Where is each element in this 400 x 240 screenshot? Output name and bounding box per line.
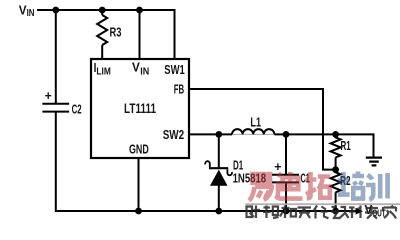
watermark underline [245, 203, 400, 205]
node SW2 / D1 junction [215, 131, 222, 138]
wire D1 branch upper [218, 134, 220, 167]
watermark slogan char 5 (xian) [314, 206, 329, 219]
wire SW2 output line left of L1 [190, 133, 233, 135]
wire VIN pin vertical [139, 10, 141, 59]
svg-text:GND: GND [129, 142, 149, 157]
svg-text:SW1: SW1 [164, 62, 184, 77]
label pin ILIM [94, 60, 111, 77]
capacitor C2 [42, 104, 69, 112]
resistor R2 [331, 170, 341, 193]
resistor R1 [331, 134, 341, 157]
svg-text:IN: IN [27, 8, 35, 19]
watermark slogan char 2 (pin) [263, 206, 279, 219]
inductor L1 [232, 129, 274, 134]
watermark slogan char 6 (she2) [331, 207, 349, 219]
svg-text:LT1111: LT1111 [124, 100, 156, 116]
label pin VIN [132, 60, 149, 78]
wire FB net to divider junction [190, 89, 335, 170]
label VOUT [365, 202, 386, 220]
svg-text:LIM: LIM [96, 65, 111, 77]
svg-text:V: V [132, 60, 140, 75]
node R1/R2 feedback junction [332, 166, 339, 173]
node bottom rail / C1 junction [283, 208, 290, 215]
node VIN rail / VIN pin junction [136, 7, 143, 14]
svg-text:R3: R3 [110, 24, 122, 39]
svg-text:IN: IN [140, 65, 149, 77]
watermark slogan char 4 (tian) [298, 208, 312, 219]
resistor R3 [97, 15, 107, 45]
node output line / R1 junction [332, 131, 339, 138]
svg-text:FB: FB [174, 82, 184, 97]
node bottom rail / D1 junction [215, 208, 222, 215]
node VIN rail / C2 junction [52, 7, 59, 14]
watermark logo red char 1 (yi) [249, 174, 272, 201]
svg-text:C2: C2 [72, 101, 82, 116]
capacitor C1 [272, 175, 299, 183]
wire R1 bottom to junction [335, 157, 337, 169]
watermark slogan char 7 (ji) [349, 206, 361, 219]
svg-text:L1: L1 [250, 115, 261, 130]
wire C2 branch upper [55, 9, 57, 103]
watermark slogan char 1 (she) [247, 206, 261, 219]
node bottom rail / R2 junction [332, 208, 339, 215]
wire top VIN rail with corner down to SW1 pin [37, 10, 175, 59]
watermark slogan char 3 (he) [280, 206, 296, 219]
op-amp U1 LT1111 IC body [91, 59, 189, 158]
wire R2 bottom to rail [335, 192, 337, 211]
ground (right, output return) [366, 158, 382, 166]
wire D1 branch lower [218, 186, 220, 212]
node VOUT arrow [356, 208, 364, 215]
wire R3 top stub [101, 9, 103, 15]
svg-text:R1: R1 [341, 138, 351, 153]
diode D1 (schottky) [205, 161, 232, 186]
wire SW2 output line right of L1 with corner to ground [274, 134, 373, 156]
watermark slogan char 8 (zhuan) [365, 206, 379, 219]
watermark slogan char 9 (jia) [383, 206, 396, 219]
node VIN rail / R3 junction [99, 7, 106, 14]
watermark logo blue char 4 (pei) [338, 172, 364, 199]
wire C1 branch upper [285, 134, 287, 174]
watermark logo red char 3 (tuo) [305, 172, 330, 198]
watermark logo blue char 5 (xun) [366, 173, 388, 200]
wire C1 branch lower [285, 183, 287, 211]
svg-text:+: + [45, 88, 53, 103]
node bottom rail / GND pin junction [135, 208, 142, 215]
watermark logo red char 2 (di) [276, 172, 303, 199]
wire GND pin vertical [138, 158, 140, 211]
svg-text:+: + [274, 159, 282, 174]
node L1 / C1 junction [283, 131, 290, 138]
wire R3 bottom stub to ILIM pin [101, 45, 103, 59]
label VIN (input) [19, 3, 35, 20]
svg-text:SW2: SW2 [163, 127, 184, 142]
wire C2 branch lower + bottom rail [55, 112, 356, 211]
